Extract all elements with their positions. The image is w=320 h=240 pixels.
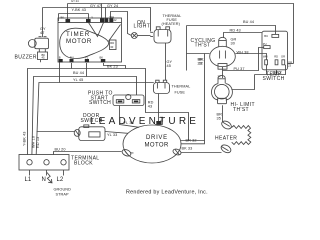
svg-text:TIMER: TIMER	[66, 31, 90, 38]
wire BK23	[104, 63, 126, 69]
motor left plug	[121, 148, 132, 157]
on light lamp	[131, 33, 137, 39]
svg-text:WH 38: WH 38	[237, 50, 249, 54]
svg-text:35: 35	[217, 116, 221, 120]
svg-text:B: B	[59, 55, 61, 59]
wire on-light feed	[111, 12, 132, 36]
ground strap	[47, 173, 52, 183]
svg-text:Y-BK 43: Y-BK 43	[72, 8, 87, 12]
svg-text:LIGHT: LIGHT	[134, 24, 151, 30]
wire PU37	[223, 48, 264, 71]
cycling thermostat	[210, 37, 236, 69]
svg-text:N: N	[42, 177, 46, 183]
svg-text:PU 37: PU 37	[234, 67, 245, 71]
svg-text:DRIVE: DRIVE	[146, 135, 168, 141]
wire timer top feed 3	[105, 8, 107, 21]
wire timer top feed 2	[101, 4, 103, 21]
push to start switch	[113, 94, 144, 105]
svg-text:BR 32: BR 32	[186, 139, 197, 143]
wire YL34 start to motor	[120, 106, 140, 128]
wire cycling to hi-limit	[222, 67, 224, 79]
svg-text:FUSE: FUSE	[175, 91, 186, 95]
svg-text:RD: RD	[274, 55, 278, 59]
wire top line A	[68, 4, 294, 64]
svg-text:YL 33: YL 33	[107, 133, 117, 137]
wire line C	[59, 14, 89, 22]
svg-text:Rendered by LeadVenture, Inc.: Rendered by LeadVenture, Inc.	[126, 190, 208, 196]
svg-text:MOTOR: MOTOR	[66, 38, 92, 45]
wire motor BR32	[181, 140, 205, 142]
wire motor left lower	[130, 152, 134, 154]
buzzer	[28, 37, 48, 63]
svg-text:30: 30	[110, 45, 113, 49]
svg-text:Y-BK 43: Y-BK 43	[23, 132, 27, 147]
svg-text:Y: Y	[91, 16, 93, 20]
wire top line B	[43, 8, 151, 32]
terminal block	[19, 155, 69, 176]
wire cycling left	[187, 53, 210, 55]
svg-text:(HEATER): (HEATER)	[162, 22, 181, 26]
svg-text:32: 32	[199, 61, 203, 65]
thermal fuse heater TF1	[150, 27, 171, 43]
wire F third run	[36, 62, 154, 155]
svg-text:23: 23	[288, 64, 291, 68]
svg-text:GY 24: GY 24	[71, 0, 79, 3]
wire E second run	[32, 63, 137, 155]
svg-text:YL: YL	[85, 55, 89, 59]
svg-text:BK: BK	[61, 16, 65, 20]
wire push-start to motor right RD43	[146, 106, 189, 141]
wire hi-limit to heater	[222, 105, 224, 121]
svg-text:45: 45	[42, 56, 45, 60]
svg-text:BK 33: BK 33	[182, 147, 193, 151]
svg-text:L1: L1	[25, 177, 32, 183]
svg-text:YL 45: YL 45	[73, 78, 83, 82]
svg-text:RD: RD	[110, 41, 114, 45]
motor right plug	[172, 148, 182, 156]
wire TF1 down GY45	[165, 43, 167, 81]
svg-text:BLOCK: BLOCK	[74, 161, 93, 167]
svg-text:BU 44: BU 44	[243, 20, 254, 24]
svg-text:BK: BK	[100, 55, 104, 59]
svg-text:RD 43: RD 43	[230, 28, 241, 32]
wire bundle vertical	[181, 54, 205, 144]
timer motor U1	[58, 18, 122, 62]
svg-text:L2: L2	[57, 177, 64, 183]
drive motor	[123, 116, 181, 163]
svg-text:47: 47	[40, 31, 44, 35]
svg-text:GY 47: GY 47	[90, 4, 101, 8]
svg-text:GROUND: GROUND	[54, 188, 72, 192]
svg-text:MOTOR: MOTOR	[145, 142, 169, 148]
svg-text:BU: BU	[70, 55, 74, 59]
timer terminals top	[66, 18, 114, 22]
wire WH38	[235, 54, 266, 60]
wire timer top feed 1	[67, 4, 69, 21]
wire door to motor	[105, 132, 128, 134]
hi-limit thermostat	[212, 75, 233, 104]
svg-text:43: 43	[148, 104, 152, 108]
svg-text:OR 2: OR 2	[273, 71, 282, 75]
svg-text:34: 34	[218, 75, 221, 79]
wire buzzer feed	[42, 8, 44, 38]
svg-text:BU 20: BU 20	[55, 147, 66, 151]
svg-text:YL 34: YL 34	[124, 121, 134, 125]
wire D buzzer-left run	[28, 63, 146, 155]
svg-text:WH: WH	[263, 55, 268, 59]
thermal fuse TF2	[154, 80, 170, 93]
svg-text:THERMAL: THERMAL	[172, 85, 191, 89]
wire vertical labels left	[23, 132, 41, 149]
timer tiny pin labels	[59, 15, 117, 60]
temp switch box	[262, 31, 288, 70]
svg-text:WH 10: WH 10	[32, 136, 36, 148]
wire lamp to fuse	[137, 35, 150, 37]
svg-text:BU: BU	[264, 34, 268, 38]
svg-text:HEATER: HEATER	[215, 135, 237, 141]
wire door switch branch	[37, 131, 75, 133]
wire box1 left edge	[186, 26, 188, 71]
svg-text:22: 22	[114, 18, 117, 22]
svg-text:45: 45	[160, 119, 163, 123]
wire TF2 to motor nub	[158, 94, 160, 122]
svg-text:SWITCH: SWITCH	[89, 100, 111, 106]
svg-text:GY 24: GY 24	[107, 4, 118, 8]
svg-text:SWITCH: SWITCH	[263, 76, 285, 82]
svg-text:45: 45	[167, 64, 171, 68]
timer terminals bottom	[59, 59, 106, 62]
svg-text:BU 44: BU 44	[73, 71, 84, 75]
svg-text:SWITCH: SWITCH	[81, 118, 103, 124]
svg-text:TH'ST: TH'ST	[233, 107, 249, 113]
wire BU20 neutral run	[54, 152, 122, 155]
svg-text:30: 30	[231, 42, 235, 46]
svg-text:BUZZER: BUZZER	[15, 54, 37, 60]
wire RD43 cycling top	[224, 33, 263, 38]
wire box1 top edge	[187, 26, 276, 35]
wire right border into temp switch	[288, 63, 294, 65]
svg-text:OR: OR	[281, 55, 285, 59]
wire temp bundle lower	[231, 65, 285, 90]
svg-text:STRAP: STRAP	[56, 192, 70, 196]
svg-text:BK 23: BK 23	[107, 64, 118, 68]
heater element	[220, 119, 251, 154]
svg-text:RD 13: RD 13	[36, 137, 40, 148]
wire motor to heater bottom	[181, 152, 222, 154]
door switch	[74, 125, 105, 141]
svg-text:TH'ST: TH'ST	[195, 43, 211, 49]
